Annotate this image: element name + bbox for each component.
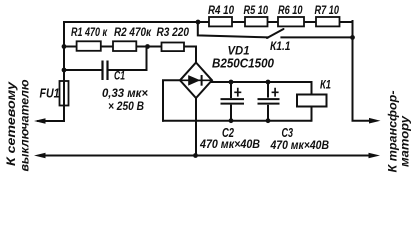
svg-text:R5 10: R5 10 (244, 3, 269, 17)
resistor R1 (77, 41, 101, 51)
switch K1.1 blade (267, 29, 284, 38)
svg-text:R7 10: R7 10 (315, 3, 340, 17)
wire right vertical to transformer (353, 21, 375, 121)
wire left vertical rail (63, 22, 65, 121)
wire bottom mains line (40, 155, 374, 157)
svg-text:выключателю: выключателю (17, 80, 31, 172)
node R1 tap (62, 44, 67, 49)
relay coil K1 (297, 95, 327, 107)
resistor R7 (316, 17, 340, 26)
wire fuse output to arrow (38, 120, 64, 122)
wire negative rail (163, 120, 311, 122)
capacitor C2 (221, 82, 245, 121)
svg-text:× 250 В: × 250 В (108, 99, 144, 113)
node C3 positive (266, 80, 271, 85)
svg-text:R3 220: R3 220 (157, 25, 190, 39)
polarity plus C2 (234, 88, 241, 97)
arrow to transformer upper (369, 118, 381, 124)
wire R1-R2-R3 row (64, 47, 196, 64)
svg-text:0,33 мк×: 0,33 мк× (102, 86, 148, 100)
polarity plus C3 (272, 88, 279, 97)
node R2-R3 junction (145, 44, 150, 49)
node C2 positive (229, 80, 234, 85)
svg-text:470 мк×40В: 470 мк×40В (199, 137, 260, 151)
arrow to mains switch upper (34, 118, 46, 124)
fuse FU1 (60, 81, 69, 106)
svg-text:R4 10: R4 10 (208, 3, 234, 17)
node K1.1 right junction (350, 35, 355, 40)
svg-text:матору: матору (397, 115, 411, 167)
arrow to transformer lower (369, 153, 381, 159)
resistor R5 (245, 17, 268, 26)
svg-text:R1 470 к: R1 470 к (71, 25, 108, 39)
svg-text:К сетевому: К сетевому (4, 80, 18, 166)
wire positive rail (212, 82, 312, 95)
svg-text:R2 470к: R2 470к (114, 25, 152, 39)
wire K1.1 branch (198, 22, 268, 37)
node C1 tap (62, 68, 67, 73)
node bottom line junction (193, 153, 198, 158)
wire K1 bottom stem (311, 107, 313, 121)
resistor R3 (162, 43, 185, 52)
wire C1 branch (64, 69, 147, 71)
node C2 negative (229, 118, 234, 123)
arrow to mains switch lower (34, 153, 46, 159)
capacitor C1 (103, 61, 108, 81)
capacitor C3 (258, 82, 280, 121)
svg-text:В250С1500: В250С1500 (212, 56, 275, 71)
wire top mains line (64, 21, 353, 23)
svg-text:470 мк×40В: 470 мк×40В (270, 138, 330, 152)
node top line junction (196, 20, 201, 25)
wire K1.1 right contact (281, 36, 352, 38)
svg-text:R6 10: R6 10 (278, 3, 303, 17)
svg-text:FU1: FU1 (40, 87, 60, 101)
resistor R6 (278, 17, 304, 26)
node C3 negative (266, 118, 271, 123)
svg-text:К1.1: К1.1 (270, 39, 291, 53)
svg-text:К1: К1 (320, 77, 331, 91)
bridge rectifier VD1 (180, 63, 212, 99)
wire bridge left vertex loop (163, 80, 180, 120)
resistor R2 (113, 41, 136, 51)
svg-text:С1: С1 (114, 69, 125, 83)
wire C1 to R2-R3 node (146, 47, 148, 71)
resistor R4 (209, 17, 232, 26)
wire bridge bottom vertical (195, 97, 197, 156)
